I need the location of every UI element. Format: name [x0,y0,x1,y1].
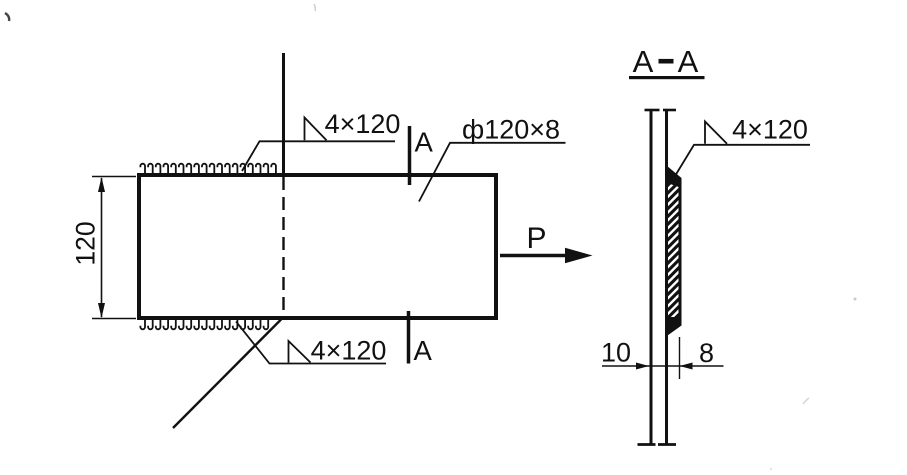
svg-text:A: A [678,44,699,79]
svg-text:A: A [415,127,434,158]
svg-text:8: 8 [699,338,714,368]
svg-text:10: 10 [601,338,631,368]
svg-text:A: A [414,335,433,366]
svg-text:4×120: 4×120 [311,336,387,366]
svg-text:4×120: 4×120 [325,109,401,139]
svg-text:4×120: 4×120 [732,115,808,145]
svg-text:P: P [526,222,546,255]
svg-text:120: 120 [71,221,101,265]
svg-text:A: A [633,44,654,79]
svg-text:ф120×8: ф120×8 [462,115,560,145]
